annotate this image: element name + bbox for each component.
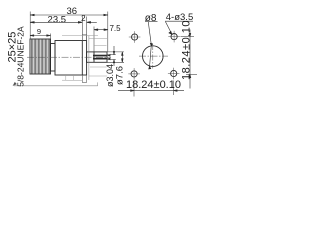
svg-text:18.24±0.10: 18.24±0.10	[126, 79, 181, 91]
svg-text:7.5: 7.5	[109, 24, 121, 33]
svg-text:ø8: ø8	[145, 13, 157, 24]
svg-text:23.5: 23.5	[48, 15, 67, 26]
svg-text:5/8-24UNEF-2A: 5/8-24UNEF-2A	[15, 26, 25, 87]
svg-text:18.24±0.10: 18.24±0.10	[181, 20, 193, 80]
svg-text:2: 2	[81, 14, 86, 23]
svg-text:ø7.6: ø7.6	[114, 66, 125, 85]
svg-text:36: 36	[67, 6, 78, 17]
svg-text:9: 9	[37, 27, 41, 36]
svg-text:ø3.04: ø3.04	[105, 64, 115, 87]
